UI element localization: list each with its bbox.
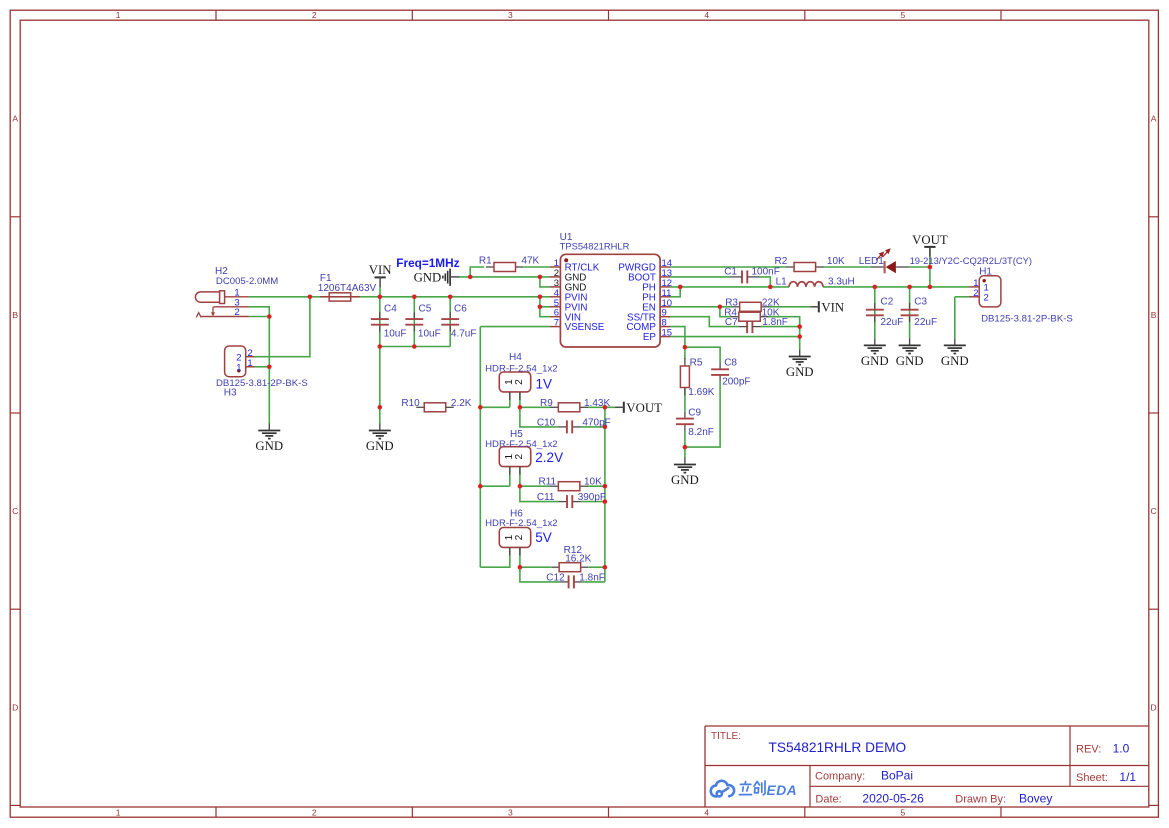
svg-text:Drawn By:: Drawn By: bbox=[955, 793, 1006, 805]
svg-text:REV:: REV: bbox=[1076, 744, 1101, 756]
svg-text:Sheet:: Sheet: bbox=[1076, 772, 1108, 784]
svg-text:2: 2 bbox=[514, 379, 525, 385]
svg-text:C10: C10 bbox=[537, 417, 556, 428]
svg-text:VOUT: VOUT bbox=[626, 401, 662, 415]
svg-text:C9: C9 bbox=[688, 407, 701, 418]
svg-text:C: C bbox=[1151, 506, 1157, 516]
svg-text:VOUT: VOUT bbox=[912, 233, 948, 247]
svg-text:C1: C1 bbox=[724, 266, 737, 277]
svg-text:10K: 10K bbox=[827, 256, 845, 267]
svg-text:Bovey: Bovey bbox=[1019, 791, 1052, 805]
svg-text:15: 15 bbox=[662, 328, 673, 339]
svg-text:2: 2 bbox=[234, 307, 239, 318]
svg-text:GND: GND bbox=[414, 271, 442, 285]
svg-text:22uF: 22uF bbox=[914, 317, 937, 328]
svg-text:10uF: 10uF bbox=[384, 329, 407, 340]
svg-text:1.43K: 1.43K bbox=[584, 398, 610, 409]
svg-text:A: A bbox=[12, 114, 18, 124]
svg-text:2: 2 bbox=[312, 807, 317, 817]
svg-text:A: A bbox=[1151, 114, 1157, 124]
svg-text:TITLE:: TITLE: bbox=[711, 731, 741, 742]
svg-text:C3: C3 bbox=[914, 297, 927, 308]
svg-text:10K: 10K bbox=[584, 477, 602, 488]
svg-text:470pF: 470pF bbox=[582, 417, 610, 428]
svg-text:GND: GND bbox=[255, 439, 283, 453]
svg-text:R11: R11 bbox=[539, 477, 557, 488]
svg-text:390pF: 390pF bbox=[578, 492, 606, 503]
svg-text:EP: EP bbox=[643, 332, 657, 343]
svg-text:5: 5 bbox=[901, 10, 906, 20]
svg-text:5: 5 bbox=[901, 807, 906, 817]
svg-text:3: 3 bbox=[508, 807, 513, 817]
svg-text:7: 7 bbox=[554, 318, 559, 329]
svg-text:22uF: 22uF bbox=[881, 317, 904, 328]
svg-text:1: 1 bbox=[236, 362, 241, 373]
svg-text:L1: L1 bbox=[776, 276, 788, 287]
svg-text:GND: GND bbox=[671, 473, 699, 487]
svg-text:2: 2 bbox=[973, 288, 978, 299]
svg-text:D: D bbox=[12, 702, 18, 712]
svg-text:1.8nF: 1.8nF bbox=[579, 573, 605, 584]
svg-text:5V: 5V bbox=[535, 530, 552, 545]
svg-text:1V: 1V bbox=[536, 376, 553, 391]
svg-text:Date:: Date: bbox=[815, 793, 841, 805]
svg-text:1.0: 1.0 bbox=[1113, 742, 1130, 756]
svg-text:VIN: VIN bbox=[369, 263, 392, 277]
svg-text:GND: GND bbox=[366, 439, 394, 453]
svg-text:B: B bbox=[12, 310, 18, 320]
svg-text:BoPai: BoPai bbox=[881, 768, 913, 782]
svg-text:D: D bbox=[1151, 702, 1157, 712]
svg-text:C7: C7 bbox=[725, 317, 738, 328]
svg-text:4.7uF: 4.7uF bbox=[451, 329, 477, 340]
svg-text:47K: 47K bbox=[521, 256, 539, 267]
svg-text:200pF: 200pF bbox=[722, 377, 750, 388]
svg-text:4: 4 bbox=[704, 807, 709, 817]
svg-text:10uF: 10uF bbox=[418, 329, 441, 340]
svg-text:3.3uH: 3.3uH bbox=[828, 276, 855, 287]
svg-text:H3: H3 bbox=[224, 388, 237, 399]
svg-text:Company:: Company: bbox=[815, 770, 865, 782]
svg-text:Freq=1MHz: Freq=1MHz bbox=[396, 256, 459, 270]
svg-text:GND: GND bbox=[941, 354, 969, 368]
svg-text:3: 3 bbox=[508, 10, 513, 20]
svg-text:R10: R10 bbox=[401, 398, 420, 409]
svg-text:1/1: 1/1 bbox=[1119, 770, 1136, 784]
svg-text:1: 1 bbox=[116, 807, 121, 817]
svg-text:1: 1 bbox=[116, 10, 121, 20]
svg-text:1206T4A63V: 1206T4A63V bbox=[318, 283, 377, 294]
svg-text:DC005-2.0MM: DC005-2.0MM bbox=[216, 276, 278, 287]
svg-text:19-213/Y2C-CQ2R2L/3T(CY): 19-213/Y2C-CQ2R2L/3T(CY) bbox=[910, 255, 1032, 266]
svg-text:GND: GND bbox=[861, 354, 889, 368]
svg-text:C4: C4 bbox=[384, 304, 397, 315]
svg-text:DB125-3.81-2P-BK-S: DB125-3.81-2P-BK-S bbox=[981, 314, 1073, 325]
svg-text:2: 2 bbox=[312, 10, 317, 20]
svg-text:1: 1 bbox=[247, 358, 252, 369]
svg-text:LED1: LED1 bbox=[859, 256, 884, 267]
svg-text:2020-05-26: 2020-05-26 bbox=[862, 791, 924, 805]
svg-text:HDR-F-2.54_1x2: HDR-F-2.54_1x2 bbox=[485, 364, 558, 375]
svg-text:TS54821RHLR DEMO: TS54821RHLR DEMO bbox=[769, 740, 907, 755]
svg-text:C: C bbox=[12, 506, 18, 516]
svg-text:1.8nF: 1.8nF bbox=[762, 317, 788, 328]
svg-text:H4: H4 bbox=[509, 352, 522, 363]
svg-text:GND: GND bbox=[786, 365, 814, 379]
svg-text:100nF: 100nF bbox=[752, 266, 780, 277]
svg-text:C11: C11 bbox=[537, 492, 555, 503]
svg-text:2: 2 bbox=[514, 454, 525, 460]
svg-text:B: B bbox=[1151, 310, 1157, 320]
svg-text:R5: R5 bbox=[690, 357, 703, 368]
svg-text:EDA: EDA bbox=[767, 783, 798, 798]
svg-text:VIN: VIN bbox=[821, 300, 844, 314]
svg-text:HDR-F-2.54_1x2: HDR-F-2.54_1x2 bbox=[485, 518, 558, 529]
svg-text:H1: H1 bbox=[979, 266, 992, 277]
svg-text:8.2nF: 8.2nF bbox=[688, 427, 714, 438]
svg-text:4: 4 bbox=[704, 10, 709, 20]
svg-text:R1: R1 bbox=[479, 256, 492, 267]
svg-text:VSENSE: VSENSE bbox=[565, 322, 605, 333]
svg-text:HDR-F-2.54_1x2: HDR-F-2.54_1x2 bbox=[485, 439, 558, 450]
svg-text:R9: R9 bbox=[540, 398, 553, 409]
svg-text:C6: C6 bbox=[454, 304, 467, 315]
svg-text:C12: C12 bbox=[546, 573, 565, 584]
svg-text:2.2V: 2.2V bbox=[535, 450, 563, 465]
svg-text:2: 2 bbox=[514, 534, 525, 540]
svg-text:TPS54821RHLR: TPS54821RHLR bbox=[560, 241, 630, 252]
svg-text:2: 2 bbox=[984, 292, 989, 303]
svg-text:C2: C2 bbox=[881, 297, 894, 308]
svg-text:GND: GND bbox=[896, 354, 924, 368]
svg-text:16.2K: 16.2K bbox=[565, 553, 591, 564]
svg-text:C8: C8 bbox=[724, 357, 737, 368]
svg-text:1.69K: 1.69K bbox=[688, 387, 714, 398]
svg-text:2.2K: 2.2K bbox=[451, 398, 472, 409]
svg-text:C5: C5 bbox=[419, 304, 432, 315]
